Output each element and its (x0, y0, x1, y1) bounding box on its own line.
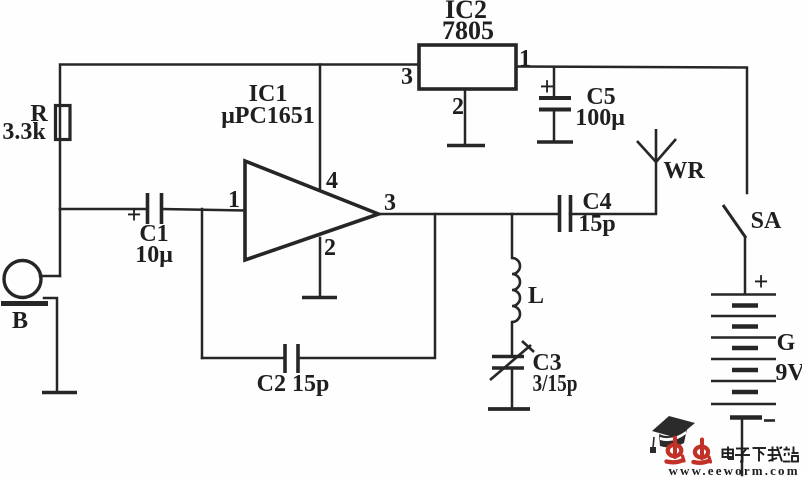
svg-text:15p: 15p (578, 211, 615, 237)
wire battery negative lead (741, 418, 744, 475)
wire L branch top (511, 214, 514, 258)
svg-text:3: 3 (401, 64, 413, 90)
battery G plates (711, 295, 776, 418)
wire L to C3 (511, 322, 514, 355)
antenna WR (637, 129, 676, 162)
op-amp IC1 triangle (245, 161, 379, 260)
svg-text:WR: WR (663, 158, 705, 184)
switch SA blade (723, 205, 746, 238)
watermark graduation cap (650, 416, 695, 453)
microphone B bar (1, 301, 48, 306)
svg-text:G: G (777, 330, 796, 356)
wire C3 to ground (511, 369, 514, 408)
wire left rail lower (59, 209, 62, 276)
wire pin4 riser (319, 65, 322, 190)
svg-text:1: 1 (519, 46, 531, 72)
variable capacitor C3 (492, 357, 524, 369)
svg-text:μPC1651: μPC1651 (221, 103, 315, 129)
svg-text:+: + (540, 72, 555, 101)
resistor R (56, 106, 71, 140)
watermark chong character 2 (694, 440, 711, 463)
svg-text:2: 2 (324, 235, 336, 261)
svg-text:1: 1 (228, 187, 240, 213)
microphone B (4, 261, 41, 298)
svg-text:3.3k: 3.3k (2, 119, 46, 145)
wire C4 to antenna (570, 162, 656, 214)
svg-text:9V: 9V (775, 360, 802, 386)
svg-text:2: 2 (452, 94, 464, 120)
regulator IC2 box (419, 45, 516, 89)
wire pin2 to ground (319, 238, 322, 296)
wire C1 to pin1 (162, 209, 245, 211)
battery G minus sign (764, 419, 775, 422)
capacitor C4 (560, 195, 571, 232)
ground mic (42, 391, 77, 394)
svg-text:www.eeworm.com: www.eeworm.com (669, 463, 800, 477)
svg-text:+: + (754, 267, 769, 296)
ground C5 (537, 140, 573, 143)
svg-text:4: 4 (326, 168, 338, 194)
capacitor C1 (148, 193, 162, 224)
svg-text:SA: SA (751, 208, 782, 234)
ground IC2 pin2 (447, 144, 485, 147)
svg-text:L: L (528, 283, 544, 309)
variable capacitor C3 arrow (490, 341, 534, 380)
watermark chong character 1 (667, 438, 685, 463)
wire feedback left riser (201, 209, 204, 358)
wire top-left rail V+ (60, 65, 419, 210)
inductor L (512, 258, 520, 322)
wire mic bottom stub (44, 298, 57, 392)
capacitor C5 (539, 98, 571, 110)
wire IC2 output to SA corner (516, 67, 747, 194)
svg-text:7805: 7805 (442, 16, 494, 45)
capacitor C2 (285, 344, 298, 373)
svg-text:3/15p: 3/15p (533, 371, 578, 397)
svg-text:B: B (12, 308, 28, 334)
wire feedback bottom right (298, 214, 435, 358)
wire C5 to ground (553, 110, 556, 140)
watermark site name dianzi xiazaizhan (723, 447, 799, 462)
wire IC2 pin2 to ground (464, 89, 467, 144)
svg-text:3: 3 (384, 190, 396, 216)
wire C5 riser (553, 67, 556, 96)
wire SA to battery (744, 238, 747, 293)
wire mic top stub (40, 275, 60, 278)
ground C3 (488, 407, 530, 411)
wire input to C1 (60, 208, 146, 211)
svg-text:100μ: 100μ (575, 105, 625, 131)
wire feedback bottom left (202, 357, 284, 360)
ground pin2 (302, 296, 337, 299)
svg-text:10μ: 10μ (135, 242, 173, 268)
wire output (377, 213, 559, 216)
svg-text:C2 15p: C2 15p (257, 371, 330, 397)
